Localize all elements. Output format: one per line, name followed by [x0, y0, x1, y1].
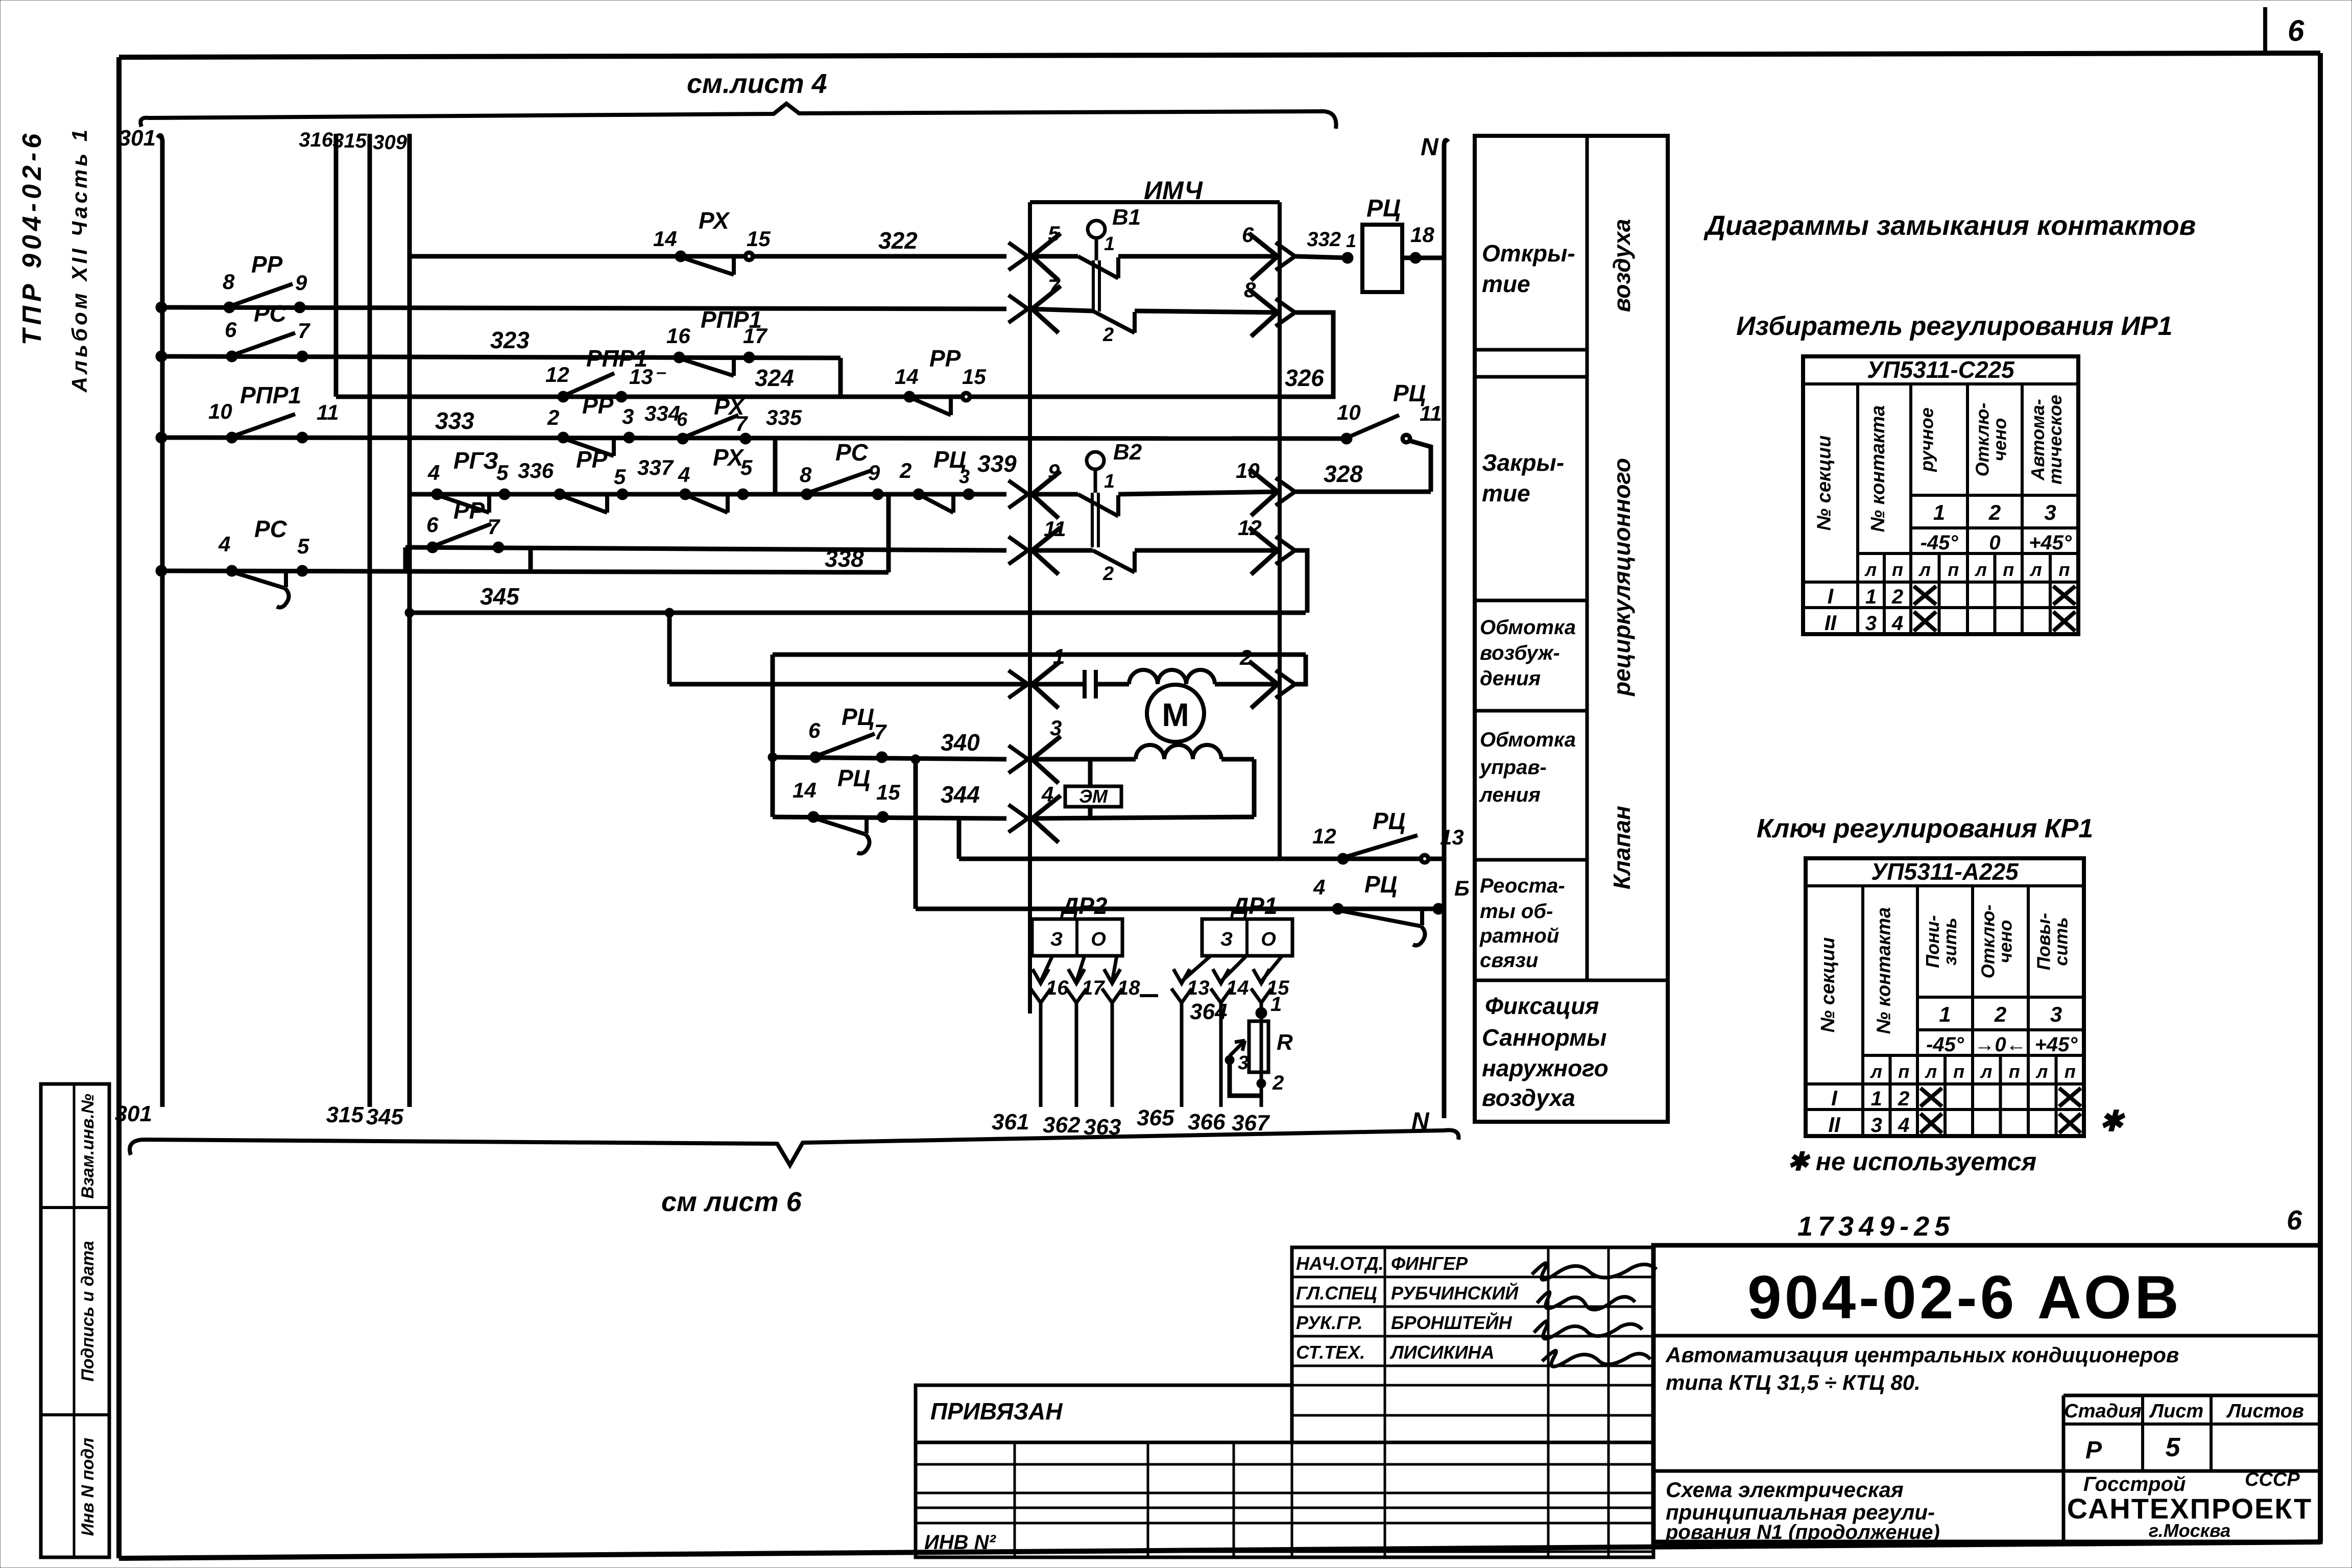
svg-text:→0←: →0←	[1974, 1033, 2026, 1056]
svg-text:4: 4	[218, 532, 230, 556]
svg-text:8: 8	[800, 463, 812, 487]
svg-text:ДР2: ДР2	[1060, 892, 1108, 919]
contact РЦ 2-3	[913, 489, 924, 500]
svg-text:ПРИВЯЗАН: ПРИВЯЗАН	[930, 1398, 1063, 1425]
svg-text:тие: тие	[1482, 480, 1530, 506]
svg-text:1: 1	[1939, 1002, 1951, 1026]
svg-text:10: 10	[1236, 459, 1260, 483]
signature squiggles	[1532, 1263, 1657, 1280]
function column outer box	[1475, 136, 1668, 1122]
svg-text:315: 315	[332, 130, 367, 152]
connector pin 3 chevron	[1009, 745, 1028, 773]
wire 326 loop from pin 8	[1281, 312, 1333, 397]
svg-text:1: 1	[1104, 471, 1115, 492]
svg-text:Листов: Листов	[2226, 1401, 2304, 1422]
svg-text:363: 363	[1084, 1115, 1121, 1140]
resistor R pin 2	[1257, 1079, 1266, 1088]
svg-text:6: 6	[2287, 1205, 2302, 1236]
svg-text:1: 1	[1346, 230, 1356, 251]
svg-text:6: 6	[2288, 14, 2305, 47]
svg-text:2: 2	[1272, 1072, 1284, 1094]
svg-text:РУБЧИНСКИЙ: РУБЧИНСКИЙ	[1391, 1282, 1519, 1304]
table УП5311-А225 column lines	[1861, 886, 1864, 1136]
connector pin 11 chevron	[1009, 537, 1028, 564]
svg-text:ЭМ: ЭМ	[1079, 786, 1108, 807]
svg-text:Стадия: Стадия	[2064, 1401, 2141, 1422]
svg-text:сить: сить	[2051, 917, 2072, 966]
svg-text:6: 6	[225, 318, 237, 342]
switch В2 pole 2	[1030, 548, 1093, 553]
title block outer	[1653, 1245, 2320, 1542]
resistor tap pin 3 with arrow	[1230, 1060, 1261, 1096]
svg-text:л: л	[1975, 559, 1987, 580]
svg-text:ИМЧ: ИМЧ	[1144, 176, 1203, 205]
svg-text:8: 8	[1244, 278, 1256, 302]
electromagnet ЭМ connection wires	[1088, 759, 1093, 786]
svg-text:2: 2	[547, 405, 559, 429]
svg-text:РС: РС	[254, 516, 287, 542]
svg-text:л: л	[1925, 1061, 1937, 1082]
svg-text:3: 3	[622, 404, 634, 428]
svg-text:типа КТЦ 31,5 ÷ КТЦ 80.: типа КТЦ 31,5 ÷ КТЦ 80.	[1666, 1370, 1921, 1394]
svg-text:+45°: +45°	[2029, 532, 2072, 554]
connector pin 1 chevron	[1009, 670, 1028, 698]
svg-text:9: 9	[295, 271, 307, 295]
wire from pin 6 to РЦ coil	[1295, 256, 1348, 258]
svg-text:334: 334	[644, 401, 680, 425]
svg-text:II: II	[1828, 1113, 1841, 1137]
connector pin 9 chevron	[1009, 480, 1028, 508]
table УП5311-А225 row 1-2-3	[1917, 996, 2084, 999]
table УП5311-С225 column lines	[1856, 384, 1859, 634]
svg-text:ФИНГЕР: ФИНГЕР	[1391, 1253, 1468, 1274]
svg-text:РХ: РХ	[699, 207, 730, 234]
svg-text:362: 362	[1043, 1113, 1081, 1138]
contact РЦ 6-7	[810, 752, 821, 763]
svg-text:338: 338	[825, 545, 864, 572]
wire row 4 inside block	[1030, 817, 1254, 818]
svg-text:воздуха: воздуха	[1609, 219, 1635, 312]
svg-text:R: R	[1277, 1030, 1293, 1055]
svg-text:УП5311-А225: УП5311-А225	[1871, 858, 2019, 885]
svg-text:364: 364	[1190, 999, 1227, 1024]
table УП5311-А225 header	[1806, 884, 2084, 887]
svg-text:1: 1	[1865, 586, 1877, 608]
svg-text:РР: РР	[453, 497, 485, 524]
wire 309-345 vertical bus	[407, 134, 412, 1107]
svg-text:ления: ления	[1479, 784, 1541, 806]
svg-text:РГЗ: РГЗ	[453, 447, 498, 474]
svg-text:10: 10	[1337, 400, 1361, 424]
svg-text:332: 332	[1307, 228, 1341, 251]
svg-text:М: М	[1162, 696, 1189, 733]
svg-text:Автоматизация центральных конд: Автоматизация центральных кондиционеров	[1665, 1343, 2179, 1367]
svg-text:л: л	[1918, 559, 1931, 580]
svg-text:3: 3	[2050, 1002, 2062, 1026]
wire row РС 4-5 and 338	[161, 571, 889, 572]
svg-text:-45°: -45°	[1926, 1033, 1964, 1056]
svg-text:7: 7	[874, 720, 887, 744]
svg-text:4: 4	[1891, 612, 1903, 635]
svg-text:339: 339	[977, 450, 1017, 477]
svg-text:Обмотка: Обмотка	[1480, 729, 1576, 751]
svg-text:17349-25: 17349-25	[1797, 1211, 1955, 1242]
contact РХ 6-7	[677, 433, 688, 444]
svg-text:рециркуляционного: рециркуляционного	[1609, 458, 1635, 697]
svg-text:328: 328	[1324, 461, 1363, 487]
svg-text:+45°: +45°	[2035, 1033, 2078, 1056]
contact РР 2-3	[558, 432, 569, 443]
connector pin 2 chevron	[1249, 661, 1278, 708]
wire row 328 from pin 10	[1295, 490, 1431, 494]
svg-text:4: 4	[1313, 875, 1325, 899]
wire from row 340 junction down to РЦ 4-Б row	[914, 759, 918, 909]
wire 316 vertical bus	[334, 134, 339, 397]
svg-text:Схема электрическая: Схема электрическая	[1666, 1478, 1904, 1502]
svg-text:чено: чено	[1995, 920, 2016, 963]
table УП5311-А225 degree row	[1917, 1028, 2084, 1031]
wire row 1282 feed	[773, 653, 1306, 657]
svg-text:управ-: управ-	[1479, 756, 1547, 779]
svg-text:340: 340	[941, 729, 980, 756]
svg-text:4: 4	[427, 461, 440, 485]
wire row 340 to pin 3	[773, 757, 1006, 759]
svg-text:337: 337	[637, 455, 674, 479]
svg-text:7: 7	[1048, 275, 1061, 299]
svg-text:14: 14	[895, 365, 919, 389]
svg-text:N: N	[1411, 1108, 1430, 1135]
svg-text:6: 6	[808, 718, 821, 742]
svg-text:РР: РР	[582, 392, 614, 419]
svg-text:дения: дения	[1480, 667, 1541, 690]
svg-text:3: 3	[1238, 1052, 1249, 1074]
svg-text:11: 11	[1044, 517, 1066, 541]
table УП5311-С225 л-п row	[1858, 552, 2078, 555]
svg-text:№ секции: № секции	[1817, 937, 1839, 1033]
svg-text:324: 324	[755, 365, 794, 391]
svg-text:ты об-: ты об-	[1480, 900, 1553, 923]
contact РЦ 12-13	[1337, 853, 1349, 864]
contact РПР1 16-17	[674, 352, 685, 363]
svg-text:Ключ регулирования КР1: Ключ регулирования КР1	[1757, 814, 2093, 843]
bracket see sheet 4 (см.лист 4)	[140, 104, 1336, 129]
wire pin2 loop up to row 1282	[1295, 655, 1306, 684]
svg-text:12: 12	[1312, 824, 1336, 848]
svg-text:301: 301	[118, 126, 156, 151]
resistor R body	[1249, 1021, 1268, 1072]
svg-text:№ контакта: № контакта	[1867, 405, 1889, 533]
wire 301 vertical bus	[158, 135, 162, 1107]
svg-text:Саннормы: Саннормы	[1482, 1024, 1606, 1051]
svg-text:11: 11	[317, 400, 339, 424]
svg-text:рования N1 (продолжение): рования N1 (продолжение)	[1665, 1521, 1940, 1543]
svg-text:Избиратель регулирования ИР1: Избиратель регулирования ИР1	[1736, 311, 2173, 341]
svg-text:Инв N подл: Инв N подл	[78, 1438, 98, 1536]
svg-text:РС: РС	[254, 300, 287, 327]
svg-text:I: I	[1828, 584, 1834, 608]
svg-text:принципиальная регули-: принципиальная регули-	[1666, 1500, 1935, 1524]
svg-text:301: 301	[115, 1101, 152, 1126]
wire from РПР1-17 down to row 324	[838, 358, 843, 397]
table УП5311-С225 degree row	[1911, 526, 2078, 529]
svg-text:п: п	[1898, 1061, 1909, 1082]
svg-text:8: 8	[223, 270, 235, 294]
table УП5311-А225 row II	[1806, 1108, 2084, 1111]
ДР2 pins 16 17 18 with plug arrows	[1041, 956, 1052, 981]
svg-text:6: 6	[677, 409, 688, 430]
svg-text:5: 5	[614, 465, 626, 489]
svg-text:17: 17	[743, 324, 767, 348]
svg-text:5: 5	[1048, 222, 1060, 246]
svg-text:12: 12	[545, 363, 569, 387]
feedback rheostat ДР2 box	[1032, 919, 1122, 956]
svg-text:322: 322	[878, 227, 918, 254]
wire row from 301 to connector pin 7	[161, 307, 1006, 309]
svg-text:5: 5	[496, 461, 509, 485]
svg-text:9: 9	[868, 461, 880, 485]
signature table	[1292, 1247, 1653, 1442]
svg-text:п: п	[2059, 559, 2070, 580]
svg-text:Взам.инв.№: Взам.инв.№	[78, 1094, 98, 1199]
svg-text:345: 345	[480, 583, 520, 610]
wire 315 vertical bus	[368, 134, 372, 1107]
binding stamp box ПРИВЯЗАН	[916, 1385, 1292, 1442]
table УП5311-С225 row 1-2-3	[1911, 494, 2078, 497]
svg-text:Подпись и дата: Подпись и дата	[78, 1241, 98, 1382]
svg-text:361: 361	[992, 1109, 1029, 1135]
svg-text:РПР1: РПР1	[240, 382, 301, 408]
svg-text:14: 14	[653, 227, 677, 251]
svg-text:УП5311-С225: УП5311-С225	[1867, 356, 2015, 383]
contact РЦ 4-Б	[1332, 903, 1343, 914]
svg-text:ЛИСИКИНА: ЛИСИКИНА	[1389, 1342, 1495, 1363]
svg-text:ратной: ратной	[1479, 925, 1559, 947]
connector pin 12 chevron	[1249, 527, 1278, 574]
svg-text:п: п	[2003, 559, 2014, 580]
contact РС 8-9	[801, 489, 812, 500]
svg-text:7: 7	[298, 319, 310, 343]
bottom left grid	[916, 1442, 1653, 1557]
table УП5311-А225 л-п row	[1863, 1054, 2084, 1057]
connector pin 5 chevron	[1009, 243, 1028, 270]
resistor R pin 1	[1256, 1007, 1267, 1019]
separator dash between connector groups	[1140, 994, 1158, 997]
selector table УП5311-С225 outer box	[1803, 356, 2078, 634]
left margin stamp table	[41, 1084, 109, 1557]
svg-text:3: 3	[1871, 1114, 1882, 1137]
svg-text:№ секции: № секции	[1814, 436, 1835, 531]
control winding coil (обмотка управления)	[1030, 757, 1136, 762]
feedback rheostat ДР1 box	[1202, 919, 1292, 956]
svg-text:-45°: -45°	[1921, 532, 1959, 554]
svg-text:З: З	[1220, 929, 1233, 950]
wire row 344 to pin 4	[773, 817, 1006, 818]
contact РЦ 10-11	[1341, 433, 1352, 444]
motor М circle	[1147, 685, 1204, 742]
page frame border	[119, 53, 2320, 57]
svg-text:Альбом XII Часть 1: Альбом XII Часть 1	[67, 127, 91, 393]
wire РЦ coil to N	[1402, 256, 1444, 260]
svg-text:см.лист 4: см.лист 4	[687, 68, 827, 99]
connector pin 8 chevron	[1249, 290, 1278, 336]
svg-text:РЦ: РЦ	[842, 704, 874, 730]
svg-text:II: II	[1825, 611, 1837, 635]
svg-text:ТПР 904-02-6: ТПР 904-02-6	[17, 130, 47, 345]
wire from row 344 down to РЦ 12-13 row	[957, 817, 962, 859]
svg-text:2: 2	[1898, 1088, 1909, 1110]
contact РС 6-7	[226, 351, 237, 362]
svg-text:РХ: РХ	[713, 444, 745, 471]
svg-text:4: 4	[1041, 782, 1053, 806]
svg-text:904-02-6 АОВ: 904-02-6 АОВ	[1747, 1263, 2182, 1332]
svg-text:п: п	[2009, 1061, 2020, 1082]
svg-text:л: л	[1980, 1061, 1992, 1082]
svg-text:367: 367	[1232, 1111, 1270, 1136]
svg-text:6: 6	[426, 513, 439, 537]
svg-text:Обмотка: Обмотка	[1480, 616, 1576, 639]
capacitor in field circuit	[1072, 682, 1085, 687]
svg-text:14: 14	[793, 778, 817, 802]
connector pin 10 chevron	[1249, 469, 1278, 516]
contact РС 4-5	[226, 565, 237, 576]
svg-text:4: 4	[678, 463, 690, 487]
svg-text:ДР1: ДР1	[1230, 892, 1277, 919]
svg-text:РЦ: РЦ	[1364, 871, 1397, 898]
svg-text:воздуха: воздуха	[1482, 1084, 1575, 1111]
switch В1 pole 2	[1030, 309, 1093, 311]
svg-text:365: 365	[1137, 1105, 1174, 1130]
field winding coil (обмотка возбуждения)	[1129, 670, 1215, 684]
svg-text:1: 1	[1871, 1088, 1882, 1110]
svg-text:п: п	[1953, 1061, 1964, 1082]
svg-text:335: 335	[766, 405, 802, 429]
wire feed vertical to РЦ contacts	[771, 655, 775, 817]
svg-text:15: 15	[876, 780, 900, 804]
svg-text:12: 12	[1238, 516, 1262, 540]
svg-text:1: 1	[1270, 993, 1282, 1016]
table УП5311-А225 row I	[1806, 1082, 2084, 1085]
svg-text:БРОНШТЕЙН: БРОНШТЕЙН	[1391, 1312, 1513, 1333]
table УП5311-С225 header	[1803, 382, 2078, 385]
svg-text:2: 2	[899, 459, 911, 483]
svg-text:11: 11	[1420, 401, 1442, 425]
stage-sheet box	[2063, 1394, 2320, 1397]
relay coil РЦ	[1362, 225, 1402, 292]
svg-text:п: п	[2065, 1061, 2076, 1082]
contact РГЗ 4-5	[431, 489, 443, 500]
svg-text:16: 16	[666, 324, 690, 348]
svg-text:п: п	[1892, 559, 1903, 580]
svg-text:✱ не используется: ✱ не используется	[1787, 1147, 2036, 1176]
svg-text:г.Москва: г.Москва	[2149, 1520, 2230, 1541]
svg-text:ИНВ N²: ИНВ N²	[924, 1531, 997, 1554]
sheet number tick top right	[2263, 7, 2267, 55]
svg-text:Закры-: Закры-	[1482, 449, 1564, 476]
svg-text:2: 2	[1994, 1002, 2006, 1026]
limit switch В2 button	[1087, 452, 1104, 469]
svg-text:РР: РР	[251, 251, 283, 278]
svg-text:344: 344	[941, 781, 980, 808]
svg-text:5: 5	[297, 534, 309, 558]
connector pin 7 chevron	[1009, 295, 1028, 323]
svg-text:Лист: Лист	[2149, 1401, 2203, 1422]
wire row 336-337-339	[410, 492, 1006, 497]
svg-text:РУК.ГР.: РУК.ГР.	[1296, 1312, 1363, 1333]
table УП5311-С225 row II	[1803, 606, 2078, 609]
contact РЦ 14-15	[808, 811, 819, 823]
svg-text:3: 3	[1865, 612, 1877, 635]
svg-text:1: 1	[1933, 500, 1945, 524]
svg-text:5: 5	[740, 455, 753, 479]
svg-text:СТ.ТЕХ.: СТ.ТЕХ.	[1296, 1342, 1365, 1363]
svg-text:РР: РР	[576, 446, 608, 473]
svg-text:316: 316	[299, 129, 333, 151]
svg-text:Б: Б	[1454, 876, 1470, 900]
electromagnet ЭМ box	[1065, 786, 1121, 807]
svg-text:309: 309	[373, 131, 407, 154]
svg-text:РР: РР	[929, 345, 961, 372]
connector pin 6 chevron	[1249, 233, 1278, 280]
contact РР 14-15	[904, 391, 915, 402]
svg-text:15: 15	[962, 365, 986, 389]
svg-text:15: 15	[747, 227, 771, 251]
contact РХ 14-15	[675, 251, 686, 262]
wire row РЦ 12-13	[959, 857, 1444, 861]
svg-text:СССР: СССР	[2245, 1469, 2300, 1490]
svg-text:Р: Р	[2085, 1437, 2102, 1464]
svg-text:N: N	[1421, 134, 1439, 161]
wire row РЦ 4-Б	[916, 907, 1444, 911]
contact РР 6-7	[427, 542, 438, 553]
svg-text:3: 3	[959, 466, 970, 488]
function column inner divider	[1586, 136, 1589, 980]
svg-text:336: 336	[518, 459, 554, 483]
wire pin 12 loop down to row 345	[1295, 550, 1307, 613]
title block code 904-02-6 АОВ	[1653, 1334, 2320, 1338]
svg-text:РЦ: РЦ	[1373, 808, 1405, 834]
neutral wire N vertical	[1444, 140, 1448, 1118]
wire РЦ-11 to row 328	[1409, 441, 1431, 492]
svg-text:333: 333	[435, 407, 474, 434]
wire row to connector pin 11	[405, 547, 1006, 550]
svg-text:РЦ: РЦ	[837, 765, 870, 791]
svg-text:см лист 6: см лист 6	[661, 1187, 802, 1217]
contact РР 8-9	[224, 302, 235, 313]
svg-text:4: 4	[1898, 1114, 1909, 1137]
contact РР 4-5 second	[554, 489, 565, 500]
svg-text:3: 3	[2044, 500, 2056, 524]
svg-text:6: 6	[1242, 223, 1254, 247]
svg-text:возбуж-: возбуж-	[1480, 642, 1560, 664]
divider above drawing name	[1653, 1469, 2320, 1473]
svg-text:чено: чено	[1989, 418, 2010, 462]
svg-text:Реоста-: Реоста-	[1480, 875, 1565, 897]
wire from field coil to pin 2	[1215, 682, 1280, 687]
svg-text:9: 9	[1048, 460, 1060, 484]
svg-text:2: 2	[1988, 500, 2001, 524]
svg-text:✱: ✱	[2099, 1105, 2126, 1137]
svg-text:2: 2	[1239, 645, 1252, 669]
svg-text:связи: связи	[1480, 949, 1538, 972]
svg-text:З: З	[1050, 929, 1063, 950]
wire 338 rise to row 339	[886, 494, 891, 572]
switch В1 pole 1	[1030, 254, 1078, 259]
svg-text:РЦ: РЦ	[1366, 195, 1401, 222]
svg-text:5: 5	[2166, 1433, 2181, 1462]
bracket see sheet 6 (см лист 6)	[130, 1130, 1458, 1165]
connector pin 4 chevron	[1009, 805, 1028, 832]
limit switch В1 button	[1088, 221, 1105, 238]
